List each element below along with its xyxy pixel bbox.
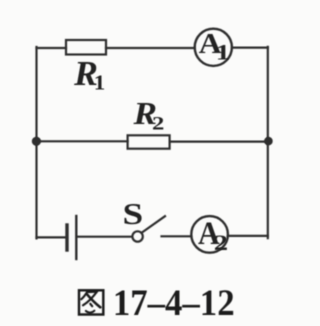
- wire top-left segment: [37, 47, 67, 49]
- wire left vertical: [35, 47, 37, 238]
- switch S contact: [132, 231, 142, 241]
- ammeter A2: [191, 216, 228, 253]
- svg-text:1: 1: [94, 70, 106, 94]
- node junction left: [32, 137, 41, 146]
- label A2: [198, 215, 220, 252]
- wire R1 to A1: [106, 47, 195, 49]
- wire switch to A2: [162, 235, 192, 237]
- wire middle-left segment: [37, 140, 128, 142]
- battery negative plate: [65, 225, 68, 250]
- svg-text:2: 2: [214, 230, 228, 255]
- wire bottom-left segment: [37, 236, 66, 238]
- resistor R2: [128, 135, 170, 148]
- node junction right: [264, 137, 273, 146]
- svg-text:2: 2: [152, 112, 164, 134]
- label A1: [199, 27, 222, 59]
- svg-text:17–4–12: 17–4–12: [113, 282, 235, 323]
- wire A2 to bottom-right corner: [228, 235, 268, 237]
- label R1: [73, 53, 98, 93]
- wire right vertical: [267, 47, 269, 238]
- svg-text:1: 1: [216, 40, 230, 65]
- label S: [123, 197, 144, 231]
- resistor R1: [66, 40, 106, 55]
- caption character 图: [79, 290, 103, 314]
- label R2: [132, 97, 157, 132]
- wire battery to switch: [78, 236, 133, 238]
- ammeter A1: [195, 29, 232, 66]
- caption text 17-4-12: [113, 282, 235, 323]
- switch S blade: [142, 216, 165, 232]
- svg-text:S: S: [123, 197, 144, 231]
- wire A1 to top-right corner: [232, 46, 268, 48]
- wire middle-right segment: [170, 141, 268, 143]
- battery positive plate: [75, 216, 77, 259]
